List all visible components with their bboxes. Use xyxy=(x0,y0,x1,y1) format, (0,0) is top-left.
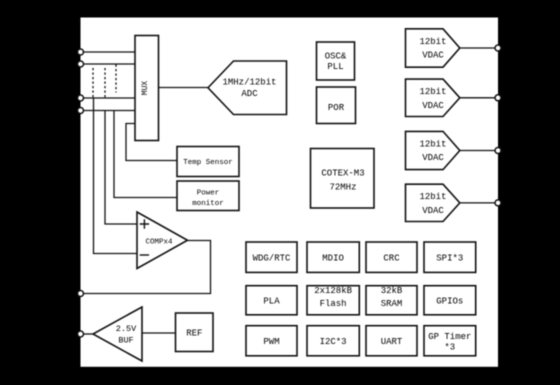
svg-text:PLL: PLL xyxy=(327,62,343,72)
svg-text:32kB: 32kB xyxy=(381,286,403,296)
svg-text:SPI*3: SPI*3 xyxy=(436,253,463,263)
svg-text:VDAC: VDAC xyxy=(422,51,444,61)
svg-text:UART: UART xyxy=(381,337,403,347)
svg-text:12bit: 12bit xyxy=(419,87,446,97)
svg-text:OSC&: OSC& xyxy=(325,52,347,62)
svg-text:BUF: BUF xyxy=(118,336,133,346)
svg-text:2.5V: 2.5V xyxy=(116,324,137,334)
svg-text:COMPx4: COMPx4 xyxy=(145,239,173,247)
svg-text:GP Timer: GP Timer xyxy=(428,332,471,342)
svg-text:12bit: 12bit xyxy=(419,139,446,149)
svg-text:12bit: 12bit xyxy=(419,37,446,47)
svg-text:1MHz/12bit: 1MHz/12bit xyxy=(222,77,276,87)
svg-text:I2C*3: I2C*3 xyxy=(320,337,347,347)
svg-text:GPIOs: GPIOs xyxy=(436,296,463,306)
svg-text:MUX: MUX xyxy=(141,81,150,96)
svg-text:VDAC: VDAC xyxy=(422,101,444,111)
svg-text:Temp Sensor: Temp Sensor xyxy=(183,159,233,167)
svg-text:REF: REF xyxy=(186,328,202,338)
svg-text:POR: POR xyxy=(328,103,345,113)
svg-text:SRAM: SRAM xyxy=(381,299,403,309)
svg-text:CRC: CRC xyxy=(383,253,400,263)
svg-text:ADC: ADC xyxy=(241,89,258,99)
svg-text:2x128kB: 2x128kB xyxy=(314,286,352,296)
svg-text:12bit: 12bit xyxy=(419,192,446,202)
svg-text:MDIO: MDIO xyxy=(322,253,344,263)
svg-text:PLA: PLA xyxy=(263,296,280,306)
svg-text:WDG/RTC: WDG/RTC xyxy=(253,253,291,263)
svg-text:VDAC: VDAC xyxy=(422,206,444,216)
svg-text:monitor: monitor xyxy=(192,200,224,208)
svg-text:Flash: Flash xyxy=(320,299,347,309)
svg-text:PWM: PWM xyxy=(263,337,279,347)
svg-text:VDAC: VDAC xyxy=(422,153,444,163)
svg-text:Power: Power xyxy=(197,189,220,197)
svg-text:COTEX-M3: COTEX-M3 xyxy=(321,169,364,179)
svg-text:72MHz: 72MHz xyxy=(329,182,356,192)
svg-text:*3: *3 xyxy=(444,343,455,353)
